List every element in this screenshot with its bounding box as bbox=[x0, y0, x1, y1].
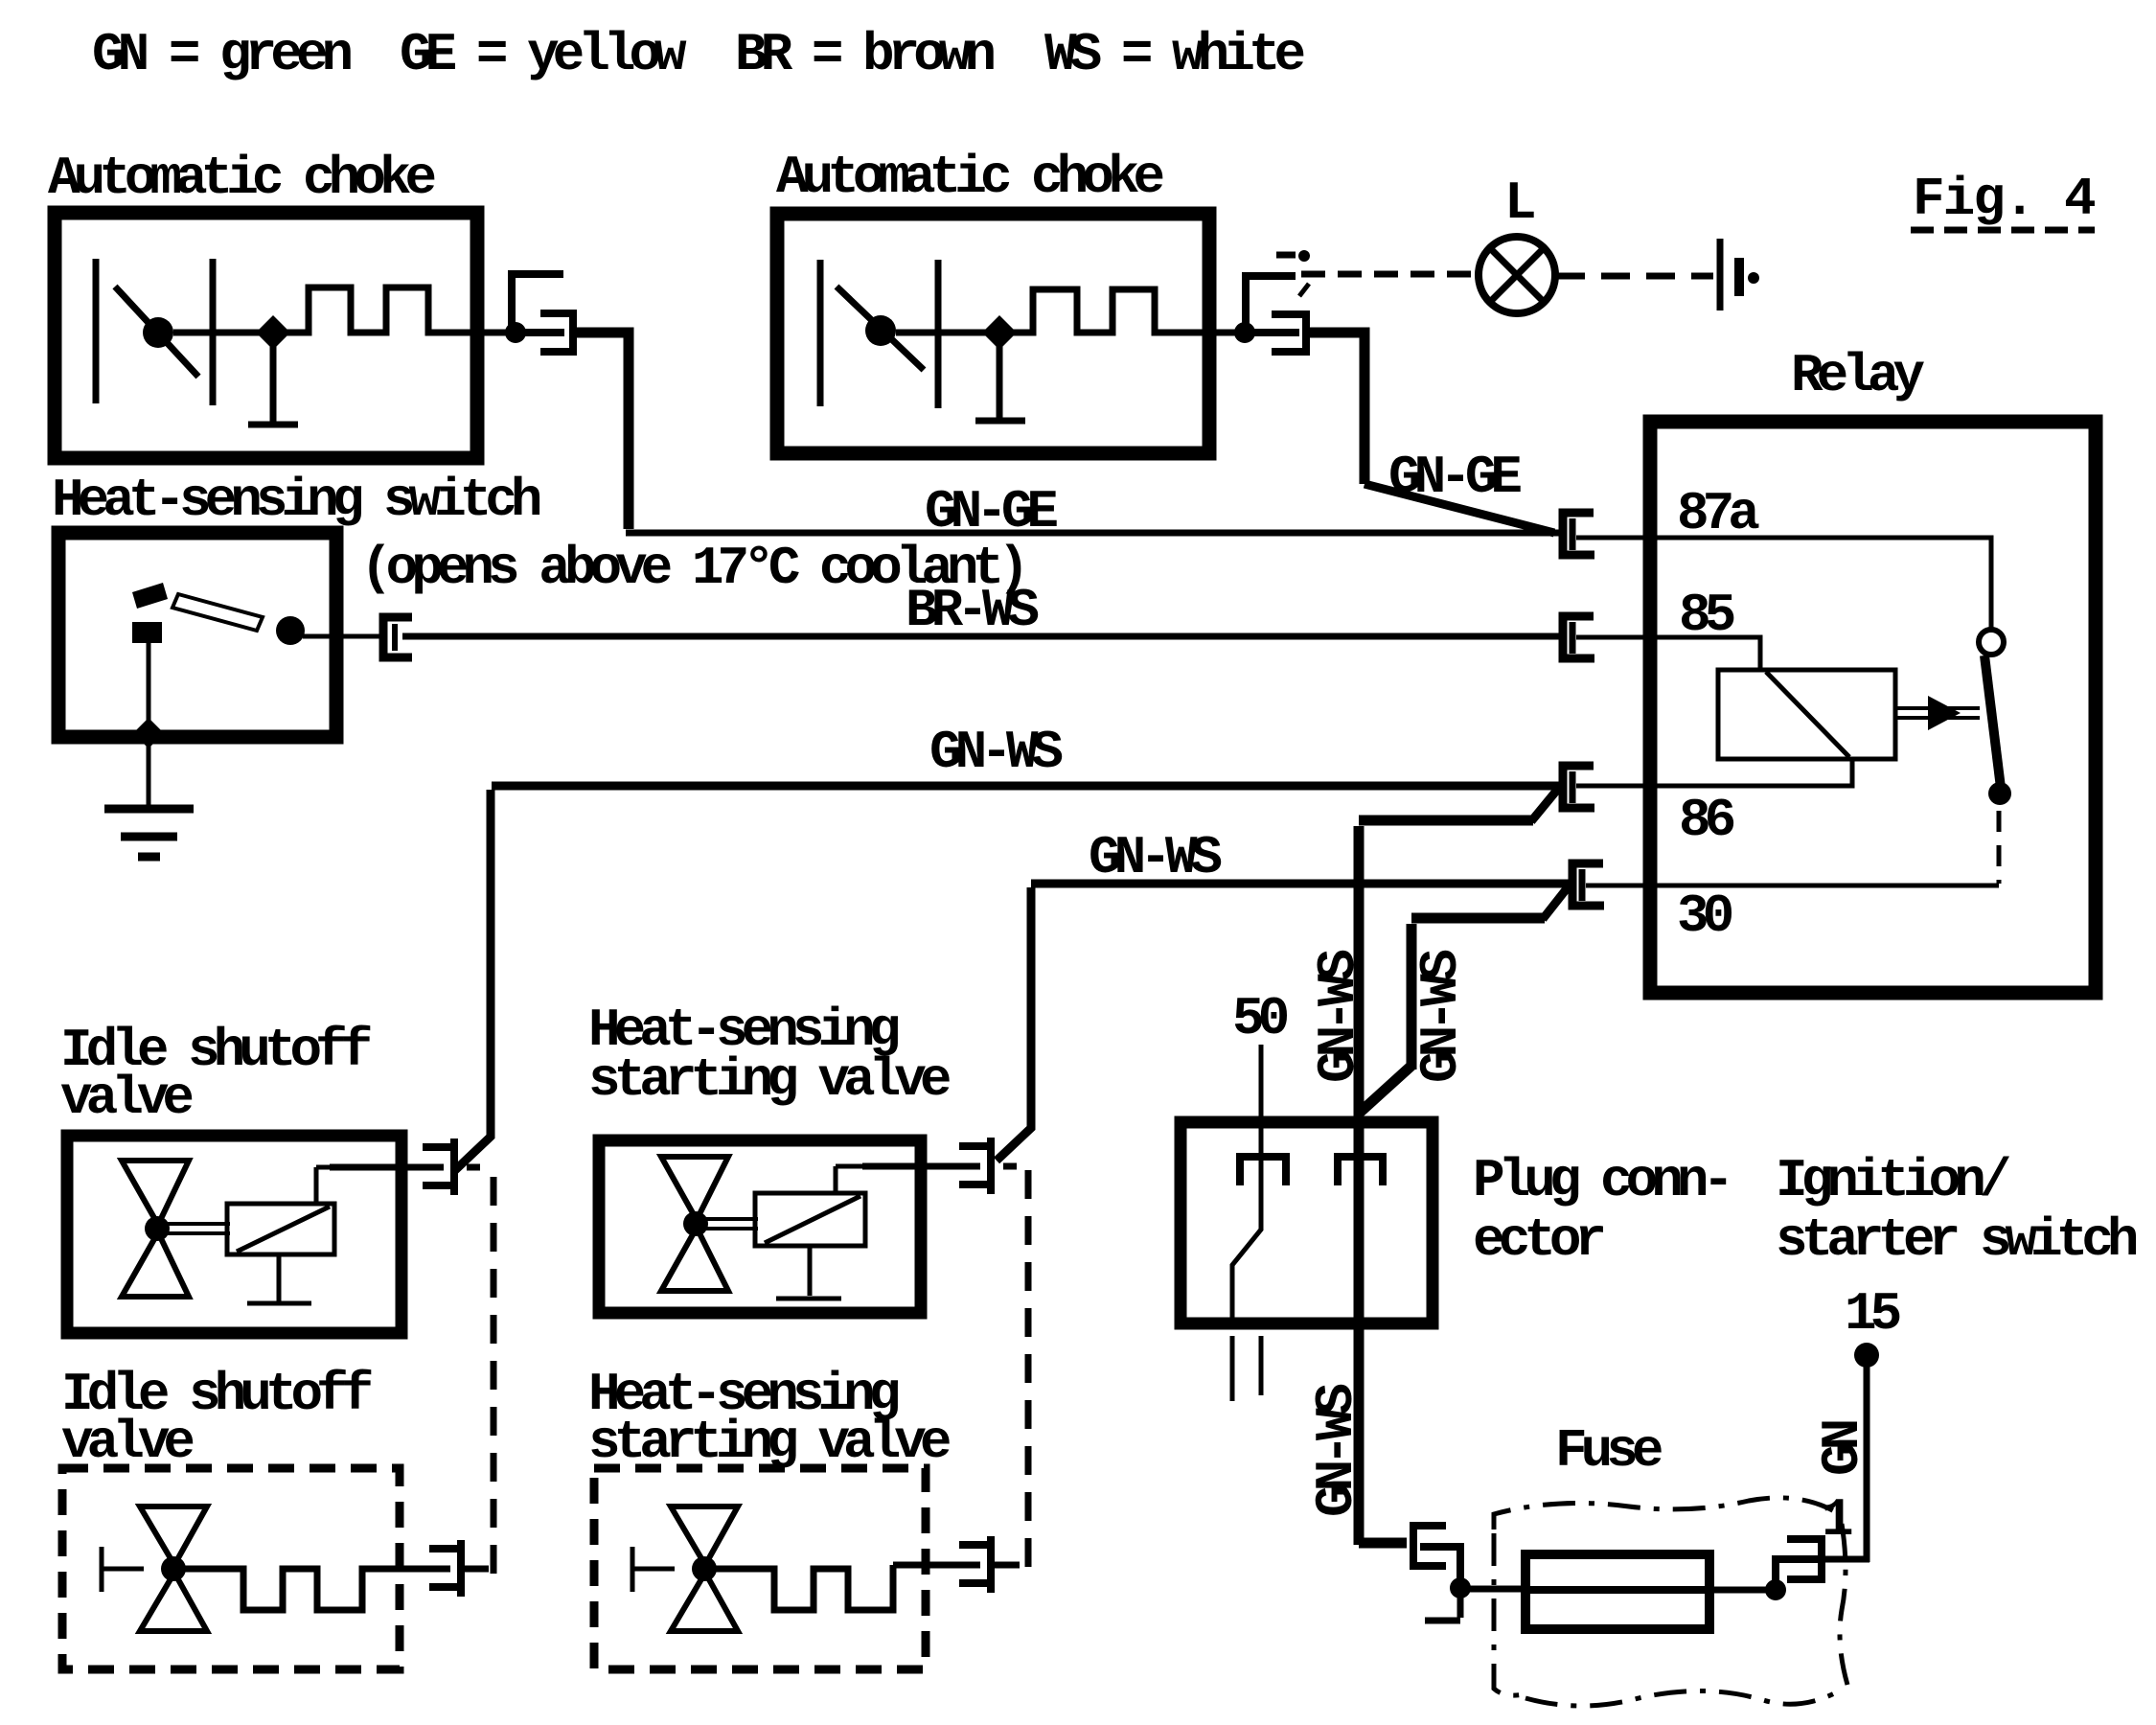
svg-text:Fuse: Fuse bbox=[1555, 1420, 1662, 1482]
diagonal joining elbow wires above plug box bbox=[1361, 1066, 1411, 1112]
slanted dash mark at choke2 connector bbox=[1299, 284, 1309, 296]
relay switch arm end dot bbox=[1988, 782, 2011, 805]
idle shutoff valve dashed box bbox=[62, 1468, 400, 1669]
heat valve 1 solenoid box bbox=[755, 1193, 865, 1246]
wire from plug connector down to fuse connector bbox=[1359, 1538, 1407, 1544]
dash mark above choke2 connector bbox=[1276, 252, 1296, 259]
svg-text:50: 50 bbox=[1232, 988, 1288, 1049]
wire from choke2 connector down bbox=[1306, 333, 1365, 484]
svg-text:Automatic choke: Automatic choke bbox=[48, 148, 434, 209]
heat valve 1 solenoid diagonal bbox=[765, 1196, 860, 1243]
relay coil box bbox=[1718, 670, 1895, 759]
fuse left junction dot bbox=[1450, 1577, 1471, 1598]
junction diamond on switch box bottom bbox=[133, 718, 164, 748]
svg-text:GN-WS: GN-WS bbox=[1306, 1385, 1367, 1517]
idle valve 2 bowtie bottom triangle bbox=[140, 1573, 207, 1631]
choke1 connector plug prong bbox=[512, 274, 560, 333]
svg-text:GN-GE: GN-GE bbox=[1388, 447, 1521, 508]
fuse element middle line bbox=[1525, 1586, 1709, 1594]
heat valve 2 bowtie bottom triangle bbox=[671, 1573, 738, 1631]
relay 85 connector pin bbox=[1570, 622, 1576, 654]
fuse left connector female bracket (opens right) bbox=[1413, 1526, 1442, 1566]
heat valve 1 wire exiting box bbox=[862, 1163, 980, 1170]
heat valve 2 winding wire bbox=[716, 1565, 980, 1610]
dashed wire from choke2 connector to lamp bbox=[1301, 271, 1476, 278]
heat valve 2 connector female bracket bbox=[963, 1540, 991, 1589]
automatic choke 1 box bbox=[55, 213, 477, 458]
relay internal 30 line bbox=[1586, 884, 1999, 888]
idle valve 1 link double lines bbox=[163, 1224, 230, 1233]
relay armature arrow head bbox=[1928, 696, 1961, 730]
relay 30 elbow wire from plug connector vertical bbox=[1411, 918, 1545, 1069]
choke1 blade pivot circle bbox=[143, 317, 173, 348]
idle valve 2 connector female bracket bbox=[433, 1544, 461, 1593]
relay 86 elbow wire from plug connector vertical bbox=[1359, 820, 1533, 1112]
choke2 switch blade diagonal bbox=[837, 287, 924, 370]
idle valve 1 bowtie bottom triangle bbox=[122, 1232, 189, 1297]
choke2 internal wire with heater winding bbox=[896, 289, 1239, 333]
heat-sensing valve dashed box bbox=[594, 1468, 926, 1669]
choke1 internal wire with heater winding bbox=[173, 287, 510, 333]
relay 30 connector bracket bbox=[1572, 863, 1604, 906]
relay 85 connector bracket bbox=[1563, 616, 1594, 658]
svg-text:WS = white: WS = white bbox=[1044, 24, 1303, 85]
fuse right connector female bracket (opens left) bbox=[1791, 1539, 1822, 1579]
heat-sensing starting valve box bbox=[599, 1140, 921, 1313]
choke1 junction node diamond bbox=[256, 315, 290, 350]
choke2 blade pivot circle bbox=[865, 315, 896, 346]
automatic choke 2 box bbox=[777, 214, 1209, 453]
relay internal 87a line to switch contact bbox=[1576, 538, 1991, 628]
relay coil diagonal bbox=[1766, 672, 1849, 757]
plug connector right pin arch bbox=[1338, 1157, 1383, 1182]
choke1 connector male pin bbox=[516, 329, 561, 336]
fuse dash-dot box left border bbox=[1494, 1533, 1524, 1695]
idle valve 1 solenoid box bbox=[227, 1204, 334, 1254]
svg-text:GN-WS: GN-WS bbox=[1089, 827, 1221, 888]
relay internal 85 line to coil bbox=[1576, 637, 1760, 670]
heat switch ground stem bbox=[147, 643, 151, 809]
heat valve 2 output wire bbox=[991, 1562, 1020, 1569]
idle valve 2 output wire bbox=[461, 1566, 489, 1573]
idle valve 1 bowtie top triangle bbox=[122, 1161, 189, 1225]
relay dashed link from arm to 30 line bbox=[1997, 811, 2002, 884]
svg-text:GN-WS: GN-WS bbox=[929, 722, 1062, 783]
plug connector box bbox=[1181, 1122, 1433, 1323]
svg-text:Ignition/: Ignition/ bbox=[1776, 1150, 2010, 1211]
svg-text:L: L bbox=[1504, 172, 1534, 234]
GN wire from 15 down to fuse bbox=[1864, 1355, 1870, 1562]
heat valve 2 bowtie top triangle bbox=[671, 1506, 738, 1565]
battery cell short plate bbox=[1734, 258, 1744, 296]
warning lamp circle with cross bbox=[1479, 237, 1555, 313]
choke2 junction node diamond bbox=[982, 315, 1017, 350]
heat switch bimetal blade outline bbox=[172, 594, 263, 631]
node at choke2 output bbox=[1234, 322, 1255, 343]
heat switch connector bracket (opens right) bbox=[383, 617, 412, 657]
svg-text:Heat-sensing switch: Heat-sensing switch bbox=[52, 470, 540, 531]
heat switch wire to connector bbox=[303, 634, 379, 639]
heat switch terminal square bbox=[132, 622, 162, 643]
relay 87a connector pin bbox=[1570, 518, 1576, 550]
idle valve 2 left stub bbox=[102, 1547, 144, 1592]
relay internal 86 line to coil bottom bbox=[1576, 759, 1852, 786]
relay 86 connector pin bbox=[1570, 771, 1576, 803]
svg-text:starting valve: starting valve bbox=[588, 1049, 950, 1111]
fuse dash-dot box bottom border bbox=[1525, 1690, 1840, 1706]
relay 30 connector pin bbox=[1579, 869, 1586, 901]
relay 87a connector bracket bbox=[1563, 513, 1594, 555]
svg-text:GN: GN bbox=[1812, 1421, 1873, 1476]
dashed vertical wire heat valves bbox=[1025, 1170, 1032, 1572]
svg-text:starter switch: starter switch bbox=[1776, 1209, 2137, 1271]
wire from right dot up to fuse right connector bbox=[1776, 1559, 1818, 1590]
main GN-WS vertical through plug connector bbox=[1354, 1108, 1365, 1545]
plug connector left pin arch bbox=[1240, 1157, 1286, 1182]
svg-text:GN-WS: GN-WS bbox=[1411, 951, 1472, 1083]
heat valve 1 connector output stub bbox=[1003, 1163, 1017, 1170]
terminal 50 wire into plug connector bbox=[1259, 1045, 1264, 1165]
idle valve 1 bowtie center dot bbox=[145, 1216, 170, 1241]
idle valve 2 bowtie center dot bbox=[161, 1556, 186, 1581]
relay box bbox=[1650, 422, 2096, 993]
heat valve 1 link double lines bbox=[702, 1219, 758, 1229]
svg-text:30: 30 bbox=[1677, 885, 1732, 947]
relay armature link double lines bbox=[1895, 708, 1980, 718]
wire long horizontal to relay 87a bbox=[626, 530, 1560, 537]
node at choke1 output bbox=[505, 322, 526, 343]
svg-text:87a: 87a bbox=[1677, 483, 1759, 544]
relay 30 diagonal wire to pin bbox=[1543, 887, 1568, 919]
idle valve 1 wire to connector bbox=[316, 1167, 332, 1204]
wire from left dot to fuse element bbox=[1460, 1586, 1525, 1593]
svg-text:BR = brown: BR = brown bbox=[735, 24, 994, 85]
svg-text:GE = yellow: GE = yellow bbox=[400, 24, 687, 85]
heat switch fixed contact stub bbox=[132, 583, 168, 609]
heat valve 1 connector female bracket bbox=[963, 1141, 991, 1190]
wire from choke1 connector down to 87a line bbox=[573, 333, 629, 529]
idle valve 1 solenoid diagonal bbox=[237, 1207, 330, 1252]
svg-text:ector: ector bbox=[1473, 1209, 1603, 1271]
heat switch contact circle bbox=[276, 616, 305, 645]
heat switch connector pin bbox=[392, 624, 398, 651]
dashed underline under Fig. 4 bbox=[1911, 227, 2095, 234]
fuse dash-dot box right border bbox=[1840, 1524, 1847, 1685]
ground symbol bars bbox=[104, 809, 194, 857]
fuse element rectangle bbox=[1525, 1554, 1709, 1629]
heat-sensing switch box bbox=[58, 533, 336, 737]
heat valve 1 wire to connector bbox=[836, 1166, 867, 1193]
svg-text:starting valve: starting valve bbox=[588, 1412, 950, 1473]
choke2 electrode bar 2 bbox=[935, 260, 942, 408]
relay 86 diagonal wire to pin bbox=[1531, 789, 1558, 821]
plug connector stub wires below box bbox=[1232, 1336, 1261, 1401]
idle shutoff valve box bbox=[67, 1136, 401, 1333]
choke2 connector male pin bbox=[1245, 329, 1296, 336]
dashed vertical wire idle valves bbox=[491, 1177, 497, 1579]
idle valve 1 wire exiting box bbox=[330, 1164, 444, 1171]
svg-text:GN-WS: GN-WS bbox=[1308, 951, 1369, 1083]
choke1 ground stem and T-bar bbox=[248, 333, 298, 425]
terminal 15 dot bbox=[1854, 1343, 1879, 1368]
wire diagonal from choke2 drop to relay 87a pin bbox=[1365, 484, 1554, 533]
svg-text:valve: valve bbox=[61, 1412, 193, 1473]
choke2 ground stem and T-bar bbox=[975, 333, 1025, 421]
heat valve 1 bowtie top triangle bbox=[661, 1157, 728, 1220]
relay 86 connector bracket bbox=[1563, 766, 1594, 808]
svg-text:GN = green: GN = green bbox=[92, 24, 351, 85]
wire GN-WS from idle valve up and right to relay 86 bbox=[454, 786, 1560, 1171]
svg-text:GN-GE: GN-GE bbox=[925, 481, 1057, 542]
heat valve 1 bowtie bottom triangle bbox=[661, 1228, 728, 1291]
wire GN-WS from heat-sensing valve up and right to relay 30 bbox=[997, 884, 1570, 1161]
dot mark above choke2 connector bbox=[1298, 250, 1310, 262]
wire BR-WS long horizontal to relay 85 bbox=[402, 633, 1560, 640]
svg-text:Plug conn-: Plug conn- bbox=[1473, 1150, 1728, 1211]
svg-text:valve: valve bbox=[60, 1068, 192, 1129]
svg-text:Fig. 4: Fig. 4 bbox=[1913, 169, 2095, 230]
choke2 connector plug prong bbox=[1246, 276, 1292, 333]
fuse left connector tail stub bbox=[1425, 1588, 1460, 1621]
choke1 electrode bar 1 bbox=[93, 259, 100, 403]
heat valve 2 left stub bbox=[632, 1547, 675, 1592]
idle valve 1 connector female bracket bbox=[426, 1142, 454, 1191]
svg-text:Automatic choke: Automatic choke bbox=[776, 147, 1162, 208]
battery dot mark bbox=[1748, 272, 1759, 284]
heat valve 2 bowtie center dot bbox=[692, 1556, 717, 1581]
wire from fuse element to right dot bbox=[1709, 1587, 1776, 1594]
svg-text:15: 15 bbox=[1845, 1283, 1900, 1345]
plug connector left pin internal wire bbox=[1232, 1165, 1261, 1323]
dashed wire from lamp to battery bbox=[1556, 273, 1713, 280]
fuse left connector male pin and drop bbox=[1424, 1547, 1460, 1583]
fuse dash-dot box top border bbox=[1494, 1498, 1836, 1529]
choke1 electrode bar 2 bbox=[210, 259, 217, 405]
choke2 electrode bar 1 bbox=[817, 260, 824, 406]
heat valve 1 bowtie center dot bbox=[683, 1211, 708, 1236]
idle valve 1 stand stem and base bbox=[247, 1254, 311, 1303]
choke2 connector female bracket bbox=[1275, 314, 1306, 352]
wire from fuse right connector to GN wire bbox=[1822, 1556, 1869, 1563]
idle valve 1 connector output stub bbox=[467, 1164, 480, 1171]
choke1 connector female bracket bbox=[544, 313, 573, 352]
svg-text:86: 86 bbox=[1679, 790, 1734, 851]
idle valve 2 winding wire bbox=[185, 1569, 450, 1610]
fuse right junction dot bbox=[1765, 1579, 1786, 1600]
idle valve 2 bowtie top triangle bbox=[140, 1506, 207, 1565]
svg-text:BR-WS: BR-WS bbox=[906, 580, 1038, 641]
svg-text:Relay: Relay bbox=[1791, 345, 1924, 406]
battery cell long plate bbox=[1717, 239, 1724, 310]
relay switch movable arm bbox=[1984, 655, 2001, 788]
choke1 switch blade diagonal bbox=[115, 287, 198, 377]
relay switch fixed contact circle bbox=[1979, 630, 2004, 655]
heat valve 1 stand stem and base bbox=[776, 1246, 841, 1299]
